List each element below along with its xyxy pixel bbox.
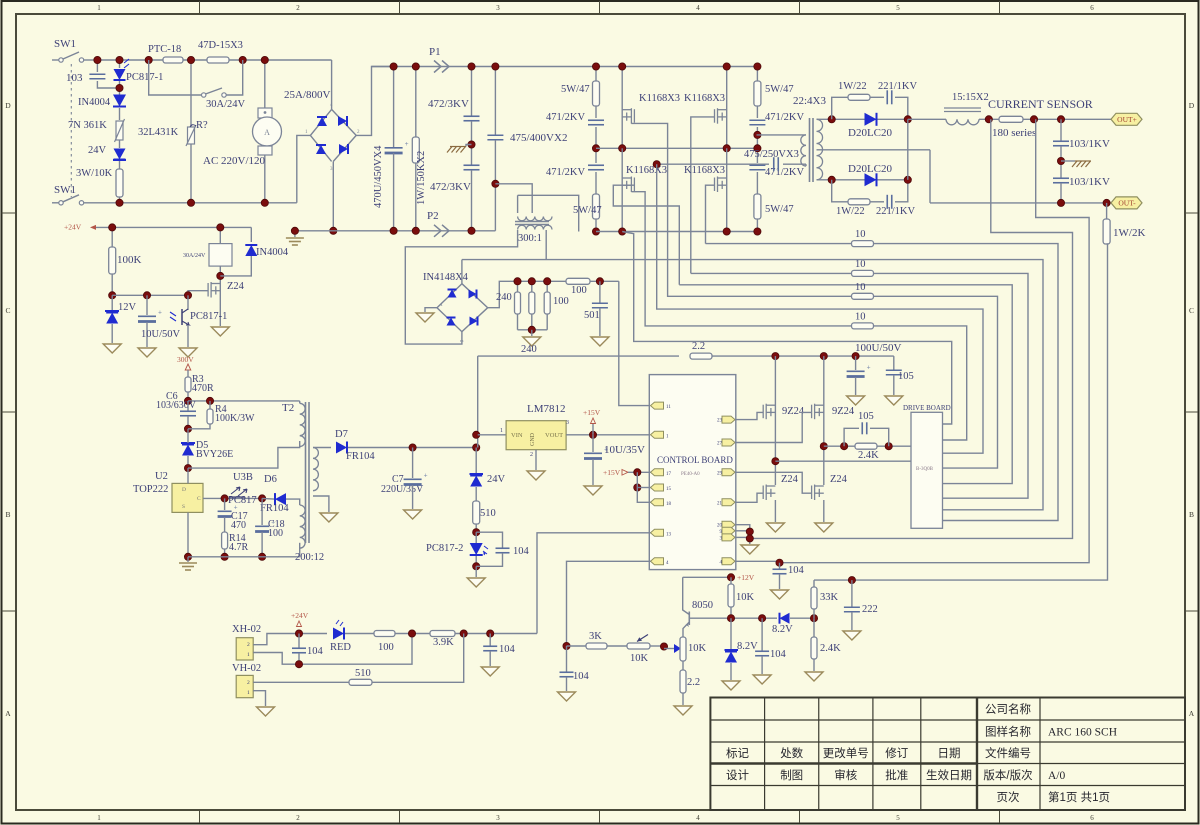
svg-text:222: 222 <box>862 604 878 615</box>
svg-text:2.2: 2.2 <box>687 677 700 688</box>
resistor 100 (LED) <box>374 631 395 637</box>
svg-text:CURRENT SENSOR: CURRENT SENSOR <box>988 97 1093 111</box>
svg-text:K1168X3: K1168X3 <box>626 165 667 176</box>
wire bridge DC- down <box>332 161 334 230</box>
opto transistor PC817-1 <box>187 295 189 310</box>
wire line3 Q3 return <box>679 285 1012 484</box>
XH-02 pin1 wire low path <box>253 634 412 665</box>
wire bridge AC- to bottom rail <box>297 135 311 202</box>
svg-text:47D-15X3: 47D-15X3 <box>198 40 243 51</box>
transistor 9Z24 a <box>774 356 776 485</box>
wire to control pin 13 <box>537 533 651 634</box>
svg-text:470U/450VX4: 470U/450VX4 <box>373 145 384 208</box>
svg-text:9Z24: 9Z24 <box>782 406 805 417</box>
svg-text:K1168X3: K1168X3 <box>684 165 725 176</box>
svg-text:10K: 10K <box>736 592 755 603</box>
LM7812 ground lead <box>535 450 537 470</box>
svg-text:S: S <box>182 504 185 510</box>
svg-text:3: 3 <box>566 420 569 426</box>
svg-text:10U/50V: 10U/50V <box>141 329 181 340</box>
svg-text:15: 15 <box>666 487 672 492</box>
svg-text:240: 240 <box>521 344 537 355</box>
svg-text:100: 100 <box>378 642 394 653</box>
T1 secondary winding <box>817 119 823 180</box>
T2 aux winding (to D6) <box>300 505 305 548</box>
transistor Z24 relay driver <box>219 282 221 326</box>
T1 core <box>809 118 811 182</box>
transistor Q1 K1168X3 upper-left <box>621 67 623 149</box>
svg-text:更改单号: 更改单号 <box>823 746 869 760</box>
svg-text:104: 104 <box>513 546 530 557</box>
svg-text:9Z24: 9Z24 <box>832 406 855 417</box>
capacitor 103 across line <box>96 60 98 72</box>
svg-text:VH-02: VH-02 <box>232 663 261 674</box>
svg-text:103: 103 <box>66 72 83 84</box>
XH-02 pin2 wire <box>253 634 327 645</box>
svg-text:+: + <box>424 472 428 480</box>
svg-text:3W/10K: 3W/10K <box>76 168 113 179</box>
capacitor 104 (3K node) <box>566 646 568 672</box>
current transformer 300:1 primary <box>495 184 532 213</box>
varistor 7N 361K <box>116 121 123 140</box>
svg-text:RED: RED <box>330 642 351 653</box>
svg-text:标记: 标记 <box>726 747 749 760</box>
U2 source to ground rail <box>187 513 189 557</box>
zener 8.2V (vertical) <box>730 618 732 649</box>
svg-text:100: 100 <box>553 296 569 307</box>
svg-text:PTC-18: PTC-18 <box>148 44 181 55</box>
svg-text:17: 17 <box>666 472 672 477</box>
svg-text:PC817-1: PC817-1 <box>190 311 227 322</box>
svg-text:475/400VX2: 475/400VX2 <box>510 132 567 144</box>
transistor Q2 K1168X3 upper-right <box>726 67 728 149</box>
transistor Q3 K1168X3 lower-left <box>621 148 623 231</box>
svg-text:C: C <box>5 306 10 315</box>
svg-text:OUT-: OUT- <box>1118 199 1136 208</box>
svg-text:11: 11 <box>666 405 671 410</box>
svg-text:7N 361K: 7N 361K <box>68 120 107 131</box>
svg-text:100U/50V: 100U/50V <box>855 342 902 354</box>
svg-text:+24V: +24V <box>291 611 309 620</box>
svg-text:221/1KV: 221/1KV <box>878 81 918 92</box>
transistor 9Z24 b <box>823 356 825 485</box>
wire drive supply wrap (OUT+ node left) <box>750 119 1073 538</box>
capacitor 475/250VX3 <box>773 157 775 171</box>
svg-text:3: 3 <box>496 814 500 822</box>
transistor Z24 a (lower) <box>763 485 775 501</box>
svg-text:8.2V: 8.2V <box>772 624 793 635</box>
svg-text:VOUT: VOUT <box>545 432 563 439</box>
gate wire pin27 to 9Z24b <box>735 412 812 442</box>
svg-text:10: 10 <box>855 282 866 293</box>
wire bus1 gate drive (10R) Q4 <box>706 244 1059 521</box>
svg-text:设计: 设计 <box>726 769 749 782</box>
svg-text:FR104: FR104 <box>260 503 289 514</box>
svg-text:BVY26E: BVY26E <box>196 449 233 460</box>
svg-text:2: 2 <box>530 452 533 458</box>
svg-text:D: D <box>5 101 11 110</box>
svg-text:5W/47: 5W/47 <box>765 84 794 95</box>
svg-text:8050: 8050 <box>692 600 713 611</box>
fan motor AC 220V/120 <box>264 60 266 108</box>
svg-text:A: A <box>264 128 270 137</box>
resistor 1W/150KX2 <box>415 67 417 138</box>
rail 355 wire with 2.2 resistor <box>478 355 679 357</box>
svg-text:105: 105 <box>858 411 874 422</box>
shunt resistor 180 series <box>999 116 1023 122</box>
svg-text:TOP222: TOP222 <box>133 484 168 495</box>
svg-text:XH-02: XH-02 <box>232 624 261 635</box>
svg-text:D: D <box>1189 101 1195 110</box>
svg-text:公司名称: 公司名称 <box>985 702 1031 716</box>
svg-text:470R: 470R <box>192 383 214 394</box>
snubber top wire <box>188 400 300 402</box>
wire bridge DC+ to top bus <box>356 67 393 136</box>
svg-text:1: 1 <box>500 428 503 434</box>
zener 24V (aux rail) <box>475 448 477 474</box>
zener 24V <box>114 149 126 160</box>
capacitor 104 (3.9K node) <box>489 634 491 647</box>
wire transformer centre tap to OUT- rail <box>929 150 931 203</box>
svg-text:240: 240 <box>496 292 512 303</box>
svg-text:第1页 共1页: 第1页 共1页 <box>1048 790 1110 804</box>
current transformer 300:1 secondary <box>518 225 552 229</box>
svg-text:1W/2K: 1W/2K <box>1113 227 1145 239</box>
capacitor 103/1KV (lower) <box>1053 177 1069 179</box>
drive mid wire to drive board <box>775 460 911 462</box>
svg-text:1: 1 <box>247 690 250 696</box>
33K top wire to nest <box>814 579 852 581</box>
wire lower cathode junction down <box>907 119 909 180</box>
resistor PTC-18 <box>163 57 183 63</box>
svg-text:5: 5 <box>896 4 900 12</box>
svg-text:5W/47: 5W/47 <box>765 204 794 215</box>
pin15 pin18 tie <box>637 472 650 502</box>
potentiometer 10K <box>627 643 650 649</box>
capacitor C17 470U <box>224 498 226 510</box>
Q4 gate lead to bus1 <box>706 185 715 243</box>
capacitor 105 (rail) <box>893 356 895 370</box>
Q3 gate lead to line3 <box>613 185 679 285</box>
VH-02 pin1 to ground <box>253 691 265 706</box>
svg-text:+: + <box>405 140 409 148</box>
svg-text:+15V: +15V <box>603 468 621 477</box>
svg-text:100K/3W: 100K/3W <box>215 413 255 424</box>
svg-text:1W/22: 1W/22 <box>838 81 867 92</box>
svg-text:1W/22: 1W/22 <box>836 206 865 217</box>
svg-text:25A/800V: 25A/800V <box>284 89 331 101</box>
bridge top vertex to sense line <box>461 260 463 284</box>
svg-text:P1: P1 <box>429 46 441 58</box>
svg-text:103/1KV: 103/1KV <box>1069 138 1110 150</box>
svg-text:475/250VX3: 475/250VX3 <box>744 149 799 160</box>
svg-text:处数: 处数 <box>780 746 803 760</box>
svg-text:Z24: Z24 <box>227 281 245 292</box>
svg-text:3K: 3K <box>589 631 602 642</box>
transistor Z24 b (lower) <box>812 485 824 501</box>
svg-text:1W/150KX2: 1W/150KX2 <box>416 151 427 205</box>
gate wire pin23 to 9Z24a <box>735 412 763 419</box>
wire control pin4 row <box>567 561 651 646</box>
svg-text:ARC 160 SCH: ARC 160 SCH <box>1048 727 1117 739</box>
capacitor 470U/450VX4 <box>393 67 395 148</box>
wire H-bridge output left (via 475/250VX3) <box>657 163 769 165</box>
svg-text:10K: 10K <box>688 643 707 654</box>
base resistor 10K to +12V <box>730 577 732 584</box>
svg-text:C: C <box>1189 306 1194 315</box>
snubber 1W/22 + 221/1KV (top) <box>832 97 848 119</box>
left snubber column 5W/47 + 471/2KV <box>595 67 597 82</box>
bridge output to burden resistors <box>488 281 566 307</box>
svg-text:300V: 300V <box>177 355 194 364</box>
svg-text:IN4004: IN4004 <box>256 247 289 258</box>
svg-text:+12V: +12V <box>737 573 755 582</box>
capacitor 472/3KV lower <box>464 164 480 166</box>
resistor 3W/10K <box>116 169 123 197</box>
capacitor 104 at connector <box>298 634 300 649</box>
wire bus2 gate drive (10R) Q2 <box>691 273 1028 498</box>
svg-text:D20LC20: D20LC20 <box>848 127 893 139</box>
bias row wire <box>112 294 188 296</box>
svg-text:2.2: 2.2 <box>692 341 705 352</box>
gate wire pin21 to Z24a <box>735 493 763 502</box>
snubber 1W/22 + 221/1KV (bottom) <box>832 180 848 202</box>
resistor 510 <box>475 487 477 501</box>
wire sense to control pin 11 <box>619 281 651 405</box>
capacitor 104 (pin4 node) <box>779 563 781 569</box>
svg-text:VIN: VIN <box>511 432 523 439</box>
gate wire pin29 to Z24b <box>735 472 812 493</box>
svg-text:2.4K: 2.4K <box>858 450 879 461</box>
svg-text:18: 18 <box>666 502 672 507</box>
svg-text:1: 1 <box>97 4 101 12</box>
svg-text:修订: 修订 <box>885 746 908 760</box>
Z24 gate wire <box>188 291 208 296</box>
svg-text:OUT+: OUT+ <box>1117 115 1137 124</box>
svg-text:103/1KV: 103/1KV <box>1069 176 1110 188</box>
svg-text:SW1: SW1 <box>54 38 76 50</box>
burden resistor 240 <box>517 281 519 292</box>
DC- rail with earth ground <box>295 230 496 232</box>
svg-text:3.9K: 3.9K <box>433 637 454 648</box>
svg-text:30A/24V: 30A/24V <box>183 253 206 259</box>
pins 20/9/3 to ground <box>735 525 750 544</box>
OUT- rail <box>930 202 1111 204</box>
svg-text:GND: GND <box>530 432 536 446</box>
svg-text:6: 6 <box>1090 4 1094 12</box>
diode IN4004 (input chain) <box>113 95 126 107</box>
svg-text:SW1: SW1 <box>54 184 76 196</box>
svg-text:22:4X3: 22:4X3 <box>793 95 827 107</box>
svg-text:PC817-1: PC817-1 <box>126 72 163 83</box>
control board box <box>649 375 736 570</box>
capacitor 104 parallel PC817-2 <box>476 532 502 548</box>
capacitor C18 100U <box>261 498 263 525</box>
bridge left vertex to ground <box>425 308 437 312</box>
svg-text:180 series: 180 series <box>992 127 1036 139</box>
svg-text:D6: D6 <box>264 474 277 485</box>
output inductor 15:15X2 <box>946 119 979 125</box>
resistor 2.4K (33K node) <box>813 618 815 637</box>
SW1 mechanical link (dashed) <box>70 64 72 197</box>
control board right pins <box>722 416 735 423</box>
resistor R3 470R <box>187 370 189 377</box>
svg-text:471/2KV: 471/2KV <box>546 112 586 123</box>
resistor 1W/2K on OUT- <box>1106 203 1108 219</box>
svg-text:日期: 日期 <box>938 747 961 760</box>
mid junction with chassis ground <box>471 121 473 165</box>
node 3K row <box>563 642 570 649</box>
emitter resistor 10K <box>680 637 686 661</box>
flag OUT- <box>1111 197 1142 209</box>
wire bus3 gate drive (10R) Q1 <box>631 123 997 468</box>
arrow P2 <box>434 225 449 237</box>
svg-text:K1168X3: K1168X3 <box>639 93 680 104</box>
svg-text:P2: P2 <box>427 210 439 222</box>
series resistor 100 <box>566 278 590 284</box>
svg-text:10: 10 <box>855 229 866 240</box>
svg-text:471/2KV: 471/2KV <box>765 112 805 123</box>
resistor 47D-15X3 <box>207 57 229 63</box>
mid node with chassis ground <box>1060 146 1062 178</box>
wire line8 DC- reference wrap <box>622 232 952 425</box>
rectifier diode D20LC20 (bottom) <box>832 179 908 181</box>
svg-text:T2: T2 <box>282 402 294 414</box>
relay contact 30A/24V bypass <box>149 60 202 95</box>
svg-text:471/2KV: 471/2KV <box>546 167 586 178</box>
arrow P1 <box>434 61 449 73</box>
svg-text:472/3KV: 472/3KV <box>430 181 471 193</box>
svg-text:AC 220V/120: AC 220V/120 <box>203 155 266 167</box>
svg-text:R?: R? <box>196 120 208 131</box>
wire D5 to T2 primary bottom <box>188 441 300 468</box>
8050 base row <box>689 617 777 619</box>
svg-text:1: 1 <box>97 814 101 822</box>
svg-text:D20LC20: D20LC20 <box>848 163 893 175</box>
capacitor 475/400VX2 <box>494 67 496 136</box>
svg-text:470: 470 <box>231 520 246 531</box>
burden bottom rail + ground 240 <box>518 329 548 331</box>
svg-text:300:1: 300:1 <box>518 233 542 244</box>
svg-text:5W/47: 5W/47 <box>573 205 602 216</box>
svg-text:D: D <box>182 487 186 493</box>
wire bus4 gate drive (10R) Q3 source <box>631 192 966 440</box>
svg-text:4.7R: 4.7R <box>229 542 249 553</box>
burden resistor 100 <box>546 281 548 292</box>
svg-text:104: 104 <box>573 671 590 682</box>
wire inductor to shunt <box>979 118 999 120</box>
svg-text:版本/版次: 版本/版次 <box>983 768 1033 782</box>
zener 8.2V (horizontal) <box>780 613 790 624</box>
svg-text:33K: 33K <box>820 592 839 603</box>
resistor 2.2 (emitter) <box>682 661 684 670</box>
svg-text:24V: 24V <box>487 474 506 485</box>
svg-text:10: 10 <box>855 259 866 270</box>
svg-text:21: 21 <box>717 501 723 506</box>
svg-text:B: B <box>5 510 10 519</box>
svg-text:+24V: +24V <box>64 223 82 232</box>
wire right pin4 to nest <box>735 561 780 562</box>
wire cathodes to output inductor <box>908 118 946 120</box>
svg-text:105: 105 <box>898 371 914 382</box>
svg-text:制图: 制图 <box>780 769 803 782</box>
svg-text:200:12: 200:12 <box>295 552 324 563</box>
svg-text:10K: 10K <box>630 653 649 664</box>
svg-text:100: 100 <box>268 528 283 539</box>
opto LED PC817-1 (line side) <box>119 60 121 68</box>
DC+ top bus <box>372 66 759 68</box>
wire 1W/2K wrap to 33K node <box>852 244 1108 580</box>
svg-text:10U/35V: 10U/35V <box>604 444 645 456</box>
svg-text:U3B: U3B <box>233 472 253 483</box>
svg-text:104: 104 <box>770 649 787 660</box>
svg-text:2: 2 <box>296 4 300 12</box>
pot wiper arrow into 10K <box>664 648 674 650</box>
svg-text:32L431K: 32L431K <box>138 127 179 138</box>
svg-text:103/630V: 103/630V <box>156 400 197 411</box>
resistor 100K <box>111 227 113 247</box>
svg-text:B-3Q0B: B-3Q0B <box>916 467 934 472</box>
svg-text:471/2KV: 471/2KV <box>765 167 805 178</box>
switch SW1 (bottom pole) <box>59 201 63 205</box>
filter capacitor 501 <box>599 281 601 303</box>
svg-text:文件编号: 文件编号 <box>985 746 1031 760</box>
svg-text:A: A <box>5 709 11 718</box>
svg-text:510: 510 <box>480 508 496 519</box>
svg-text:+15V: +15V <box>583 408 601 417</box>
svg-text:27: 27 <box>717 442 723 447</box>
svg-text:2: 2 <box>247 642 250 648</box>
svg-text:30A/24V: 30A/24V <box>206 99 246 110</box>
svg-text:PC817-2: PC817-2 <box>426 543 463 554</box>
H-bridge bottom rail <box>596 231 757 233</box>
capacitor 10U/35V <box>592 435 594 452</box>
burden resistor (mid) <box>531 281 533 292</box>
svg-text:+: + <box>867 364 871 372</box>
svg-text:Z24: Z24 <box>830 474 848 485</box>
AC top rail wire <box>97 59 331 61</box>
svg-text:批准: 批准 <box>885 768 908 782</box>
svg-text:5: 5 <box>896 814 900 822</box>
svg-text:4: 4 <box>696 814 700 822</box>
svg-text:2: 2 <box>247 680 250 686</box>
control board left pins <box>651 402 664 409</box>
resistor 33K <box>813 609 815 618</box>
RC network 2.4K + 105 <box>824 445 911 447</box>
svg-text:472/3KV: 472/3KV <box>428 98 469 110</box>
svg-text:U2: U2 <box>155 471 168 482</box>
svg-text:A: A <box>1189 709 1195 718</box>
svg-text:3: 3 <box>496 4 500 12</box>
svg-text:C: C <box>197 496 201 502</box>
svg-text:B: B <box>1189 510 1194 519</box>
8050 collector to +12V node <box>683 576 731 578</box>
wire drive feedback wrap (OUT+ node right) <box>780 119 1090 562</box>
capacitor 104 (base node) <box>761 618 763 651</box>
resistor 3.9K <box>430 631 455 637</box>
svg-text:2: 2 <box>296 814 300 822</box>
svg-text:104: 104 <box>788 565 805 576</box>
svg-text:221/1KV: 221/1KV <box>876 206 916 217</box>
svg-text:6: 6 <box>1090 814 1094 822</box>
wire +24V rail riser <box>477 356 479 447</box>
H-bridge mid rail <box>596 147 757 149</box>
svg-text:生效日期: 生效日期 <box>926 768 972 782</box>
svg-text:Z24: Z24 <box>781 474 799 485</box>
svg-text:100: 100 <box>571 285 587 296</box>
transistor Q4 K1168X3 lower-right <box>726 148 728 231</box>
svg-text:页次: 页次 <box>997 790 1020 804</box>
